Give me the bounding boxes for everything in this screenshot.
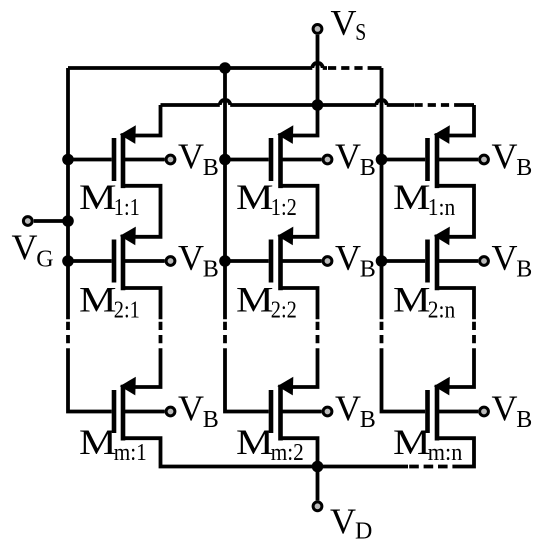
svg-text:1:2: 1:2 [271,195,297,221]
svg-text:V: V [492,237,518,277]
svg-text:M: M [393,177,431,217]
svg-text:S: S [355,20,366,46]
svg-text:M: M [79,280,117,320]
svg-text:V: V [335,136,361,176]
svg-text:M: M [236,177,274,217]
svg-text:2:n: 2:n [428,298,456,324]
svg-text:B: B [360,257,376,283]
svg-text:m:1: m:1 [114,440,147,466]
svg-text:B: B [203,155,219,181]
svg-text:M: M [393,280,431,320]
svg-text:M: M [236,280,274,320]
svg-text:V: V [12,227,38,267]
svg-text:m:n: m:n [428,440,463,466]
svg-text:V: V [331,2,357,42]
svg-text:D: D [355,519,372,545]
svg-text:G: G [36,246,53,272]
svg-text:M: M [79,422,117,462]
svg-text:B: B [360,407,376,433]
svg-text:m:2: m:2 [271,440,304,466]
svg-text:V: V [178,237,204,277]
svg-text:V: V [492,388,518,428]
svg-text:B: B [516,155,532,181]
svg-text:B: B [203,257,219,283]
svg-text:B: B [516,407,532,433]
svg-text:2:2: 2:2 [271,298,297,324]
svg-text:M: M [393,422,431,462]
svg-text:V: V [178,136,204,176]
svg-text:2:1: 2:1 [114,298,140,324]
svg-text:M: M [236,422,274,462]
svg-text:B: B [360,155,376,181]
svg-text:V: V [178,388,204,428]
svg-text:1:1: 1:1 [114,195,140,221]
svg-text:V: V [492,136,518,176]
svg-text:1:n: 1:n [428,195,456,221]
svg-text:V: V [335,388,361,428]
svg-text:M: M [79,177,117,217]
svg-text:B: B [516,257,532,283]
svg-text:B: B [203,407,219,433]
svg-text:V: V [335,237,361,277]
svg-text:V: V [330,501,356,541]
